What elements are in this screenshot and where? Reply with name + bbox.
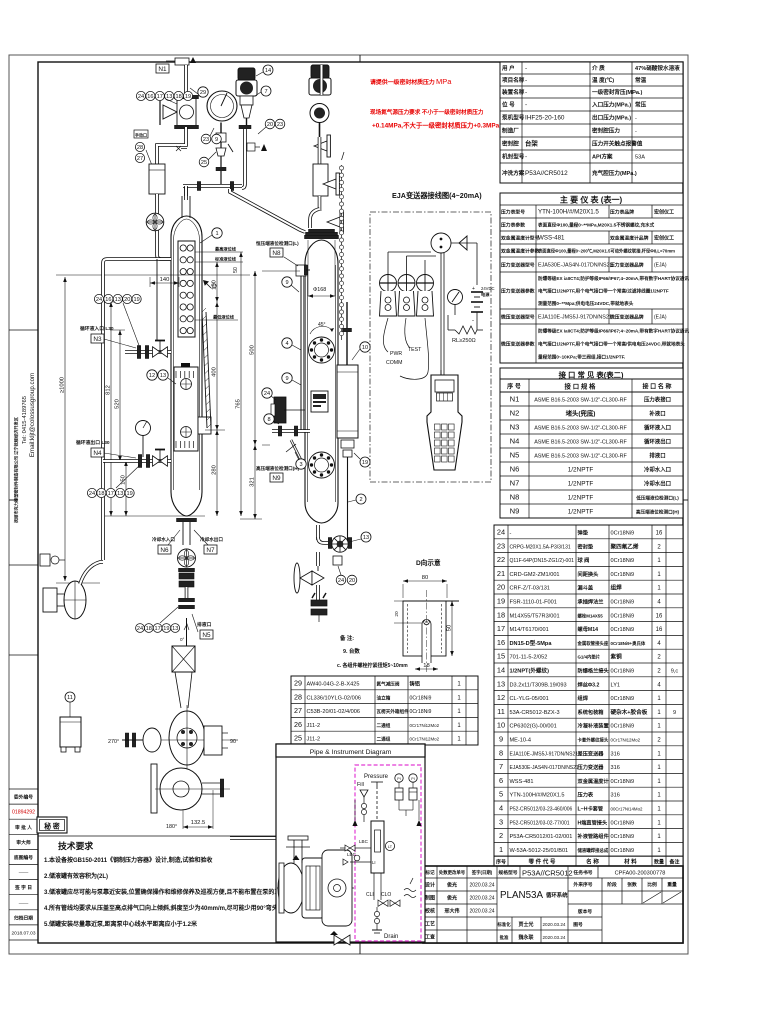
svg-text:N7: N7 (510, 479, 520, 488)
fill funnel (360, 790, 368, 797)
svg-text:0Cr18Ni9: 0Cr18Ni9 (611, 779, 635, 785)
svg-text:冷却水入口: 冷却水入口 (644, 466, 671, 474)
svg-text:D向示意: D向示意 (416, 558, 441, 567)
svg-text:LI: LI (372, 860, 376, 865)
svg-text:-: - (525, 65, 527, 72)
svg-text:差压变送器: 差压变送器 (578, 749, 605, 757)
svg-text:LBC: LBC (359, 839, 369, 844)
svg-text:——: —— (19, 901, 29, 906)
dim 812 520 150 (110, 302, 112, 516)
svg-text:(EJA): (EJA) (654, 263, 667, 269)
svg-text:C53B-20/01-02/4/006: C53B-20/01-02/4/006 (307, 709, 361, 715)
svg-text:N3: N3 (93, 336, 102, 343)
svg-text:硬杂木+胶合板: 硬杂木+胶合板 (611, 708, 648, 716)
svg-text:比例: 比例 (647, 881, 657, 888)
svg-text:19: 19 (126, 491, 132, 497)
svg-text:签字(日期): 签字(日期) (471, 869, 493, 876)
left vessel shell V1 (171, 216, 202, 516)
gauge balloons (201, 134, 211, 144)
svg-text:LY1: LY1 (611, 682, 621, 688)
svg-text:0Cr18Ni9: 0Cr18Ni9 (611, 669, 635, 675)
svg-text:9,c: 9,c (671, 669, 679, 675)
svg-text:防爆格兰接头: 防爆格兰接头 (578, 667, 610, 675)
svg-text:0Cr17Ni12Mo2: 0Cr17Ni12Mo2 (611, 738, 641, 743)
N3 inlet branch (125, 350, 171, 354)
svg-text:17: 17 (154, 626, 160, 632)
balloon 1 (212, 228, 222, 238)
vent valve right of PT stem (247, 143, 255, 151)
svg-text:12: 12 (149, 373, 155, 379)
svg-text:20: 20 (497, 583, 505, 592)
svg-text:N8: N8 (510, 493, 520, 502)
svg-text:22: 22 (497, 555, 505, 564)
svg-text:微压变送器品牌: 微压变送器品牌 (609, 314, 644, 321)
technical requirements text (38, 835, 291, 837)
pump and motor sketch (277, 887, 354, 889)
svg-text:Email:kljt@colossusgroup.com: Email:kljt@colossusgroup.com (29, 373, 36, 457)
svg-text:20: 20 (267, 122, 273, 128)
svg-text:Pipe & Instrument Diagram: Pipe & Instrument Diagram (310, 749, 392, 756)
svg-text:密封垫: 密封垫 (578, 542, 594, 550)
EJA dashed enclosure (370, 212, 491, 482)
svg-text:3.储液罐应尽可能与泵靠近安装,位置确保操作和维修保养及巡视: 3.储液罐应尽可能与泵靠近安装,位置确保操作和维修保养及巡视方便,且不能布置在泵… (44, 888, 292, 896)
svg-text:出口压力(MPa.): 出口压力(MPa.) (592, 114, 631, 122)
inner drawing frame (38, 62, 683, 943)
svg-text:Pressure: Pressure (364, 774, 389, 780)
svg-text:2020.03.24: 2020.03.24 (543, 922, 566, 927)
svg-text:补液口: 补液口 (648, 410, 665, 418)
svg-text:16: 16 (105, 297, 111, 303)
svg-text:EJA530E-JAS4N-017DN/NS21: EJA530E-JAS4N-017DN/NS21 (510, 765, 579, 771)
dim 1000 (56, 274, 250, 276)
bottom drain train V2 (316, 525, 320, 540)
balloon row top N3 (94, 294, 103, 303)
svg-text:组焊: 组焊 (578, 694, 589, 702)
svg-text:N3: N3 (510, 423, 520, 432)
vessel top flange (305, 235, 339, 238)
svg-text:版本号: 版本号 (578, 908, 593, 915)
svg-text:LT: LT (388, 845, 393, 849)
svg-text:台架: 台架 (525, 139, 538, 148)
svg-text:高压端液位检测口(H): 高压端液位检测口(H) (636, 509, 680, 516)
svg-text:1/2NPTF: 1/2NPTF (568, 481, 594, 488)
svg-text:EJA变送器接线图(4~20mA): EJA变送器接线图(4~20mA) (392, 191, 482, 200)
main gauge stand pipe (184, 186, 188, 196)
svg-text:WSS-481: WSS-481 (510, 779, 534, 785)
svg-text:TEST: TEST (408, 347, 422, 353)
svg-text:压力表型号: 压力表型号 (501, 209, 525, 216)
svg-text:80: 80 (422, 575, 428, 581)
svg-text:17: 17 (108, 491, 114, 497)
N5 drain train (178, 549, 196, 567)
balloons N5 (136, 624, 145, 633)
terminal posts (380, 260, 397, 316)
svg-text:29: 29 (200, 90, 206, 96)
title block (423, 866, 683, 943)
svg-text:EJA110E-JMS5J-917DN/NS21: EJA110E-JMS5J-917DN/NS21 (538, 315, 612, 321)
nameplate tag (311, 391, 328, 412)
svg-text:N1: N1 (158, 66, 167, 73)
svg-text:0Cr17Ni12Mo2: 0Cr17Ni12Mo2 (410, 737, 440, 742)
svg-text:IHF25-20-160: IHF25-20-160 (525, 115, 565, 122)
U slot (422, 620, 431, 664)
dims 50 150 400 280 765 right of V1 (216, 262, 218, 302)
svg-text:温 度(℃): 温 度(℃) (592, 76, 614, 84)
svg-text:0Cr18Ni9: 0Cr18Ni9 (611, 848, 635, 854)
diff pressure transmitter PDT (EJA110) (311, 65, 329, 78)
svg-text:双金属温度计品牌: 双金属温度计品牌 (610, 235, 649, 242)
svg-text:0Cr18Ni9: 0Cr18Ni9 (611, 558, 635, 564)
svg-text:+: + (472, 286, 475, 292)
svg-text:1/2NPTF: 1/2NPTF (568, 509, 594, 516)
svg-text:用 户: 用 户 (501, 64, 515, 72)
svg-text:0Cr18Ni9: 0Cr18Ni9 (410, 709, 432, 715)
svg-text:密封腔压力: 密封腔压力 (592, 127, 620, 135)
svg-text:20: 20 (124, 297, 130, 303)
svg-text:N9: N9 (272, 475, 281, 482)
sight glass frame (178, 241, 195, 337)
svg-text:手动口: 手动口 (135, 132, 147, 138)
svg-text:工查: 工查 (425, 934, 436, 941)
svg-text:-: - (472, 318, 474, 324)
svg-text:316: 316 (611, 751, 620, 757)
svg-text:泵机型号: 泵机型号 (502, 114, 525, 122)
svg-text:9: 9 (215, 137, 218, 143)
bolt flange faces (309, 337, 335, 363)
svg-text:冷却水入口: 冷却水入口 (152, 536, 175, 543)
svg-text:油立箱: 油立箱 (377, 694, 391, 701)
svg-text:15: 15 (497, 652, 505, 661)
svg-text:321: 321 (250, 477, 256, 487)
BOM parts list (494, 525, 683, 856)
svg-text:接 口 规 格: 接 口 规 格 (565, 382, 596, 391)
svg-text:Φ168: Φ168 (313, 287, 326, 293)
svg-text:规格型号: 规格型号 (498, 869, 517, 876)
svg-text:CRF-Z/T-03/131: CRF-Z/T-03/131 (510, 586, 550, 592)
right vessel shell V2 (305, 240, 338, 523)
paint mark (181, 363, 190, 371)
svg-text:审 批 人: 审 批 人 (15, 824, 32, 831)
svg-text:13: 13 (363, 535, 369, 541)
svg-text:冷却水出口: 冷却水出口 (200, 536, 223, 543)
svg-text:N5: N5 (510, 451, 520, 460)
svg-text:53A-CR5012-BZX-3: 53A-CR5012-BZX-3 (510, 710, 560, 716)
top right valve manifold (320, 65, 324, 95)
svg-text:-: - (525, 154, 527, 161)
condensate pot (313, 164, 328, 196)
svg-text:10: 10 (497, 721, 505, 730)
svg-text:24: 24 (138, 94, 144, 100)
svg-text:俊光: 俊光 (447, 895, 457, 902)
svg-text:压力变送器: 压力变送器 (578, 763, 605, 771)
left edge fitting (40, 554, 50, 566)
svg-text:压力变送器品牌: 压力变送器品牌 (610, 262, 644, 269)
svg-text:标准化: 标准化 (496, 921, 511, 928)
svg-text:张数: 张数 (627, 881, 637, 888)
svg-text:材 料: 材 料 (624, 858, 637, 866)
transmitter PT (EJA530) (242, 127, 245, 188)
svg-text:排液口: 排液口 (197, 621, 212, 628)
svg-text:23: 23 (203, 137, 209, 143)
dim 140 (150, 282, 179, 284)
svg-text:9: 9 (499, 735, 503, 744)
svg-text:设计: 设计 (425, 882, 435, 889)
left fittings of top view (125, 733, 128, 747)
svg-text:2020.03.24: 2020.03.24 (543, 935, 566, 940)
svg-text:5.储罐安装尽量靠近泵,距离泵中心线水平距离应小于1.2米: 5.储罐安装尽量靠近泵,距离泵中心线水平距离应小于1.2米 (44, 920, 197, 928)
isolation valve 2 (323, 179, 336, 189)
svg-text:0Cr18Ni9: 0Cr18Ni9 (611, 531, 635, 537)
svg-text:DN15-D型-5Mpa: DN15-D型-5Mpa (510, 639, 553, 647)
svg-text:CLO: CLO (381, 892, 391, 898)
svg-text:316: 316 (611, 793, 620, 799)
svg-text:防爆等级EX iaIICT4;防护等级IP66/IP67;4: 防爆等级EX iaIICT4;防护等级IP66/IP67;4~20mA,带有数字… (538, 275, 689, 282)
svg-text:工艺: 工艺 (425, 921, 435, 928)
svg-text:双金属温度计: 双金属温度计 (578, 777, 610, 785)
svg-text:c. 各组件螺栓拧紧扭矩5~10mm: c. 各组件螺栓拧紧扭矩5~10mm (337, 662, 408, 669)
svg-text:循环液出口 L30: 循环液出口 L30 (76, 439, 110, 446)
svg-text:-: - (510, 531, 512, 537)
pump front view (160, 768, 202, 810)
svg-text:API方案: API方案 (592, 153, 613, 161)
left margin boxes (9, 788, 38, 790)
svg-text:19: 19 (163, 626, 169, 632)
svg-text:25: 25 (201, 160, 207, 166)
svg-text:N2: N2 (510, 409, 520, 418)
pressure gauge PG (207, 91, 237, 121)
svg-text:委外编号: 委外编号 (14, 794, 33, 801)
svg-text:27: 27 (137, 156, 143, 162)
blind flange stack (311, 600, 327, 606)
svg-text:132.5: 132.5 (191, 820, 206, 826)
svg-text:Tel: 0415-4189765: Tel: 0415-4189765 (22, 396, 28, 444)
svg-text:2: 2 (359, 497, 362, 503)
gauge isolation valve (216, 133, 226, 142)
svg-text:28: 28 (294, 692, 302, 701)
svg-text:处数更改单号: 处数更改单号 (438, 869, 466, 876)
svg-text:签 字 日: 签 字 日 (14, 884, 32, 891)
svg-text:2018.07.03: 2018.07.03 (11, 930, 35, 936)
svg-text:焊丝Φ3.2: 焊丝Φ3.2 (578, 680, 600, 688)
svg-text:7: 7 (264, 89, 267, 95)
svg-text:701-11-5-2/052: 701-11-5-2/052 (510, 655, 548, 661)
svg-text:微压变送器型号: 微压变送器型号 (500, 314, 535, 321)
svg-text:承插焊法兰: 承插焊法兰 (578, 598, 604, 606)
svg-text:N4: N4 (93, 450, 102, 457)
svg-text:2.储液罐有效容积为(2L): 2.储液罐有效容积为(2L) (44, 872, 108, 880)
svg-text:-: - (635, 116, 637, 122)
svg-text:4.所有管线均要求从压盖至高点排气口向上倾斜,斜度至少为40: 4.所有管线均要求从压盖至高点排气口向上倾斜,斜度至少为40mm/m,尽可能少用… (44, 904, 278, 912)
svg-text:球 阀: 球 阀 (578, 556, 590, 564)
svg-text:180°: 180° (166, 824, 177, 830)
svg-text:50: 50 (233, 267, 239, 273)
svg-text:CLI: CLI (366, 892, 374, 898)
svg-text:-: - (525, 77, 527, 84)
svg-text:53A: 53A (635, 155, 645, 161)
svg-text:13: 13 (115, 297, 121, 303)
svg-text:140: 140 (160, 277, 170, 283)
P&I diagram frame (276, 744, 425, 942)
dims 500 321 right vessel (262, 270, 300, 272)
svg-text:28: 28 (137, 145, 143, 151)
svg-text:N9: N9 (510, 507, 520, 516)
svg-text:45°: 45° (318, 322, 326, 328)
svg-text:01894292: 01894292 (12, 810, 35, 816)
svg-text:N7: N7 (206, 547, 215, 554)
balloon top right (198, 87, 208, 97)
svg-text:270°: 270° (108, 739, 119, 745)
svg-text:00Cr17Ni14Mo2: 00Cr17Ni14Mo2 (611, 807, 644, 812)
flexible hose chain (341, 165, 343, 340)
svg-text:+0.14MPa,不大于一级密封材质压力+0.3MPa: +0.14MPa,不大于一级密封材质压力+0.3MPa (372, 121, 500, 130)
svg-text:N1: N1 (510, 395, 520, 404)
svg-text:24: 24 (137, 626, 143, 632)
connection line to P&I (230, 836, 276, 840)
svg-text:量程范围0~10KPa;带三阀组,接口1/2NPTF.: 量程范围0~10KPa;带三阀组,接口1/2NPTF. (538, 354, 625, 361)
filter cylinder (157, 127, 186, 164)
svg-text:组焊: 组焊 (611, 584, 623, 592)
svg-text:冷凝补液装置: 冷凝补液装置 (578, 722, 609, 730)
svg-text:CRPG-M20X1.5A-P3/3/131: CRPG-M20X1.5A-P3/3/131 (510, 544, 571, 550)
svg-text:RL≥250Ω: RL≥250Ω (452, 338, 476, 344)
svg-text:0Cr18Ni9: 0Cr18Ni9 (611, 724, 635, 730)
svg-text:介 质: 介 质 (591, 64, 605, 72)
svg-text:N6: N6 (510, 465, 520, 474)
svg-text:19: 19 (362, 460, 368, 466)
svg-text:贾士光: 贾士光 (518, 921, 533, 928)
svg-text:13: 13 (172, 626, 178, 632)
svg-text:N5: N5 (202, 632, 211, 639)
svg-text:COMM: COMM (386, 360, 402, 366)
vessel neck (181, 196, 183, 218)
svg-text:CPFA00-200300778: CPFA00-200300778 (615, 871, 666, 877)
fittings below exchanger (341, 440, 354, 448)
svg-text:PLAN53A: PLAN53A (500, 890, 543, 901)
svg-text:位 号: 位 号 (502, 101, 515, 109)
svg-text:(EJA): (EJA) (654, 315, 667, 321)
svg-text:ASME B16.5-2003 SW-1/2"-CL300-: ASME B16.5-2003 SW-1/2"-CL300-RF (534, 440, 627, 446)
svg-text:4: 4 (499, 804, 503, 813)
svg-text:循环液入口: 循环液入口 (644, 424, 671, 432)
svg-text:CL336/10YLG-02/006: CL336/10YLG-02/006 (307, 695, 361, 701)
manifold tee flanges (197, 182, 200, 191)
N8 nozzle assembly (296, 265, 306, 276)
svg-text:47%硝酸铵水溶液: 47%硝酸铵水溶液 (635, 64, 680, 72)
svg-text:11: 11 (497, 707, 505, 716)
svg-text:H端直管接头: H端直管接头 (578, 818, 608, 826)
svg-text:18: 18 (98, 491, 104, 497)
svg-text:微压变送器参数: 微压变送器参数 (500, 341, 535, 348)
svg-text:20: 20 (394, 611, 400, 617)
svg-text:1/2NPT(外螺纹): 1/2NPT(外螺纹) (510, 667, 550, 675)
balloon row N4 (87, 488, 96, 497)
D-side box (198, 417, 211, 434)
svg-text:500: 500 (250, 345, 256, 355)
legs to pump top view (175, 672, 192, 708)
svg-text:瓦楞天外箱组件: 瓦楞天外箱组件 (377, 708, 410, 715)
svg-text:序 号: 序 号 (506, 383, 521, 391)
svg-text:P53A//CR5012: P53A//CR5012 (522, 869, 573, 878)
svg-text:0Cr18Ni9: 0Cr18Ni9 (611, 627, 635, 633)
svg-text:表面直径Φ100,量程0~200℃,M20X1.5可动外螺纹: 表面直径Φ100,量程0~200℃,M20X1.5可动外螺纹联接,杆径Φ8,L=… (537, 248, 675, 255)
svg-text:EJA110E-JMS5J-917DN/NS21: EJA110E-JMS5J-917DN/NS21 (510, 751, 579, 757)
nitrogen inlet N1 assembly (175, 58, 189, 65)
svg-text:765: 765 (236, 399, 242, 409)
svg-text:J11-2: J11-2 (307, 737, 321, 743)
magenta dashed boundary (355, 765, 421, 941)
svg-text:抚顺市克力橡塑密封件制造有限公司 辽宁抚顺经济开发区: 抚顺市克力橡塑密封件制造有限公司 辽宁抚顺经济开发区 (13, 416, 20, 523)
svg-text:压力变送器参数: 压力变送器参数 (501, 288, 535, 295)
svg-text:常温: 常温 (635, 76, 647, 84)
fitting below (333, 556, 342, 565)
svg-text:Fill: Fill (357, 782, 364, 788)
svg-text:最高液位线: 最高液位线 (215, 246, 237, 253)
svg-text:机封型号: 机封型号 (502, 153, 525, 161)
svg-text:宏创仪工: 宏创仪工 (654, 235, 674, 242)
svg-text:9. 台数: 9. 台数 (343, 647, 360, 655)
svg-text:循环液入口 L30: 循环液入口 L30 (80, 325, 114, 332)
svg-text:秘 密: 秘 密 (44, 822, 60, 831)
svg-text:冷却水出口: 冷却水出口 (644, 480, 671, 488)
svg-text:19: 19 (133, 297, 139, 303)
differential manifold cluster (274, 397, 286, 423)
svg-text:俊光: 俊光 (447, 882, 457, 889)
top spec table (500, 62, 683, 183)
svg-text:PWR: PWR (390, 351, 402, 357)
svg-text:标记: 标记 (424, 869, 435, 876)
svg-text:ASME B16.5-2003 SW-1/2"-CL300-: ASME B16.5-2003 SW-1/2"-CL300-RF (534, 454, 627, 460)
svg-text:二通组: 二通组 (377, 722, 391, 729)
svg-text:1/2NPTF: 1/2NPTF (568, 495, 594, 502)
svg-text:AW40-04G-2-B-X425: AW40-04G-2-B-X425 (307, 682, 360, 688)
svg-text:MPa: MPa (436, 77, 452, 86)
svg-text:请提供一级密封材质压力: 请提供一级密封材质压力 (370, 78, 435, 86)
svg-text:卡套外螺纹接头: 卡套外螺纹接头 (578, 737, 609, 744)
svg-text:漏斗盖: 漏斗盖 (578, 584, 594, 592)
svg-text:18: 18 (146, 626, 152, 632)
left vessel top tee down (184, 186, 188, 200)
svg-text:1/2NPTF: 1/2NPTF (568, 467, 594, 474)
svg-text:16: 16 (656, 531, 663, 537)
svg-text:循环液出口: 循环液出口 (644, 438, 671, 446)
svg-text:循环系统: 循环系统 (546, 891, 568, 899)
balloon row regulator (136, 91, 145, 100)
svg-text:16: 16 (656, 613, 663, 619)
frame centering ticks (359, 55, 361, 62)
svg-text:名 称: 名 称 (586, 858, 599, 866)
svg-text:13: 13 (497, 679, 505, 688)
svg-text:氮气减压阀: 氮气减压阀 (377, 681, 400, 688)
svg-text:-: - (635, 142, 637, 148)
N4 outlet branch (103, 459, 171, 463)
svg-text:M14/T6170/001: M14/T6170/001 (510, 627, 549, 633)
balloons near vent (265, 119, 275, 129)
pump top view (169, 711, 205, 765)
svg-text:P53A-CR5012/01-02/001: P53A-CR5012/01-02/001 (510, 834, 573, 840)
svg-text:螺栓M14X55: 螺栓M14X55 (578, 612, 604, 619)
svg-text:0Cr18Ni9: 0Cr18Ni9 (611, 613, 635, 619)
svg-text:PI: PI (411, 777, 414, 781)
right casing rect (204, 726, 222, 755)
svg-text:表面直径Φ100,量程0~**MPa,M20X1.5不锈钢螺: 表面直径Φ100,量程0~**MPa,M20X1.5不锈钢螺纹,充水式 (537, 222, 655, 229)
svg-text:重量: 重量 (667, 881, 677, 888)
svg-text:23: 23 (277, 122, 283, 128)
svg-text:零 件 代 号: 零 件 代 号 (527, 858, 555, 866)
svg-text:最低液位线: 最低液位线 (213, 314, 235, 321)
svg-text:50: 50 (447, 625, 453, 631)
svg-text:6: 6 (499, 776, 503, 785)
svg-text:0Cr17Ni12Mo2: 0Cr17Ni12Mo2 (410, 723, 440, 728)
